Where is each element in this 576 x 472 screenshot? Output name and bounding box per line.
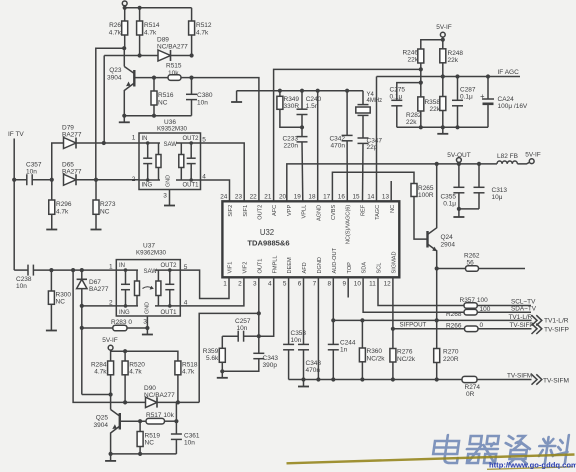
svg-text:TOP: TOP [347,262,353,274]
watermark text zi [503,436,532,464]
svg-text:C361: C361 [184,433,200,440]
svg-text:11: 11 [369,280,376,287]
svg-text:D79: D79 [62,125,74,132]
capacitor CA24 electrolytic [480,77,528,128]
svg-text:10n: 10n [197,100,208,107]
ground at R296 [46,226,57,230]
svg-text:GND: GND [166,175,172,187]
ground at Q23 emitter [119,116,130,123]
svg-text:R268: R268 [446,311,462,318]
capacitor C380 [186,78,213,116]
svg-text:DEEM: DEEM [287,257,293,274]
svg-text:SCL: SCL [377,263,383,274]
wire 5V-IF rail [111,349,178,361]
ground at Q25 emitter [105,454,116,461]
resistor R300 [48,270,71,328]
ground at R273 [91,226,102,230]
svg-text:OUT1: OUT1 [257,259,263,274]
svg-text:NC/2k: NC/2k [367,356,386,363]
svg-text:C355: C355 [440,194,456,201]
resistor R519 [137,421,160,454]
resistor R266 [446,322,534,332]
svg-text:TAGC: TAGC [375,205,381,220]
ground at bottom rail [298,380,309,387]
svg-text:4.7k: 4.7k [129,369,142,376]
svg-text:C257: C257 [235,318,251,325]
wire top supply rail [123,6,192,10]
transistor Q25 [94,395,120,454]
wire CVBS pin17 to R265 [332,172,414,201]
svg-text:C240: C240 [306,96,322,103]
svg-text:4.7k: 4.7k [56,209,69,216]
wire TAGC pin14 vertical [376,77,378,202]
crystal Y4 4MHz [356,91,382,138]
svg-text:R296: R296 [56,201,72,208]
svg-text:100μ /16V: 100μ /16V [498,103,528,110]
resistor R517 [146,412,178,424]
svg-text:C233: C233 [282,136,298,143]
svg-text:NC: NC [145,440,155,447]
wire AUD-OUT pin8 vertical [331,277,335,344]
power terminal 5V-IF bottom [102,337,118,361]
svg-text:1: 1 [109,263,113,270]
svg-text:1.5n: 1.5n [306,103,319,110]
svg-text:SIFPOUT: SIFPOUT [400,322,427,329]
svg-text:OUT2: OUT2 [182,136,199,142]
svg-text:Q24: Q24 [441,234,454,241]
svg-text:4: 4 [268,280,272,287]
wire DGND pin7 to rail [316,277,320,381]
diode D89 [104,37,194,62]
svg-text:D89: D89 [157,37,169,44]
resistor R515 [166,63,194,81]
resistor R268 [446,305,537,318]
svg-text:R516: R516 [158,92,174,99]
svg-text:2904: 2904 [441,242,456,249]
svg-text:23: 23 [235,193,243,200]
svg-text:6: 6 [298,280,302,287]
svg-text:24: 24 [220,193,228,200]
resistor R273 [93,200,116,226]
svg-text:NC/BA277: NC/BA277 [144,392,175,399]
svg-text:IN: IN [142,136,148,142]
svg-text:C238: C238 [16,276,32,283]
resistor R262 [437,253,525,272]
svg-text:R282: R282 [406,112,422,119]
svg-text:R270: R270 [443,349,459,356]
svg-text:AFC: AFC [272,205,278,216]
resistor R360 [359,320,385,381]
capacitor C244 [328,340,356,382]
svg-text:VIF1: VIF1 [228,262,234,274]
wire Q25 base line [120,419,146,423]
node TV-SIFP chevrons [532,324,570,334]
svg-text:1n: 1n [340,347,348,354]
power terminal 5V-IF right [517,152,540,164]
watermark text dian [432,435,461,463]
svg-text:R518: R518 [182,362,198,369]
wire R265 to Q24 base [414,197,428,240]
wire U37 pin2 line [82,305,117,307]
watermark text qi [465,436,500,463]
svg-text:R284: R284 [91,362,107,369]
svg-text:NC: NC [158,100,168,107]
resistor R357 [460,297,537,308]
resistor R516 [151,78,174,116]
svg-text:C357: C357 [26,162,42,169]
wire D79 node vertical [103,56,105,144]
svg-text:0R: 0R [466,391,475,398]
node TV1-L/R chevrons [532,315,569,325]
svg-text:R273: R273 [100,201,116,208]
svg-text:3: 3 [253,280,257,287]
svg-text:R265: R265 [418,185,434,192]
svg-text:TV-SIFM: TV-SIFM [543,377,569,384]
resistor R296 [49,180,72,226]
resistor R276 [390,329,416,382]
wire bottom rail TV-SIFM [289,379,462,381]
resistor R283 [82,319,148,331]
resistor R270 [434,320,459,381]
svg-text:Q23: Q23 [109,67,122,74]
wire audio line TV1-L/R [333,314,532,322]
U36 inner network [139,141,201,182]
wire Q23 emitter rail [122,114,191,118]
svg-text:VIF2: VIF2 [243,262,249,274]
svg-text:220R: 220R [443,356,459,363]
resistor R512 [189,8,212,56]
svg-text:NC: NC [390,205,396,213]
svg-text:NC: NC [56,299,66,306]
svg-text:VPLL: VPLL [302,205,308,219]
svg-text:D65: D65 [62,162,74,169]
capacitor C342 [329,91,352,202]
resistor R520 [122,351,145,404]
svg-text:R359: R359 [203,348,219,355]
svg-text:C287: C287 [460,87,476,94]
svg-text:REF: REF [360,204,366,216]
wire pin3 node to FMPLL pin4 [259,277,274,336]
svg-text:ING: ING [142,183,153,189]
svg-text:OUT1: OUT1 [182,183,199,189]
power terminal 5V-OUT [447,152,471,164]
transistor Q24 [428,164,456,269]
svg-text:C244: C244 [340,340,356,347]
capacitor C357 [14,162,54,186]
svg-text:SDA: SDA [362,262,368,274]
svg-text:AFD: AFD [302,262,308,273]
svg-text:R274: R274 [465,384,481,391]
svg-text:R512: R512 [196,22,212,29]
svg-text:D67: D67 [89,279,101,286]
svg-text:0: 0 [480,322,484,329]
svg-text:BA277: BA277 [89,286,109,293]
resistor R274 [462,372,532,397]
svg-text:20: 20 [279,193,287,200]
svg-text:100R: 100R [418,192,434,199]
wire U37 OUT1 to IC pin2 VIF2 [180,277,244,306]
svg-text:TV1-L/R: TV1-L/R [509,314,533,321]
svg-text:Q25: Q25 [96,415,109,422]
SAW filter U37 K9362M30 [109,243,188,326]
power terminal (top supply) [122,1,127,8]
resistor R246 [402,40,442,72]
svg-text:3904: 3904 [94,422,109,429]
capacitor C238 [14,265,116,290]
svg-text:C380: C380 [197,92,213,99]
svg-text:DGND: DGND [317,257,323,273]
svg-text:10n: 10n [184,440,195,447]
svg-text:10μ: 10μ [492,194,503,201]
wire U37 pin3 ground lead [145,316,149,330]
svg-text:R266: R266 [446,322,462,329]
svg-text:22: 22 [250,193,258,200]
wire input vertical A to D90 line [73,270,125,402]
ground at C355 [453,209,464,217]
svg-text:R519: R519 [145,433,161,440]
svg-text:http://www.go-gddq.com: http://www.go-gddq.com [489,461,576,470]
capacitor C275 [390,87,406,128]
node TV-SIFM chevrons [532,374,570,384]
svg-text:AUD-OUT: AUD-OUT [332,247,338,273]
svg-text:GND: GND [145,302,151,314]
svg-text:12: 12 [384,280,392,287]
svg-text:NC(S)/VAGC(6): NC(S)/VAGC(6) [346,205,352,245]
svg-text:SIF2: SIF2 [228,205,234,217]
wire D79 node down from bias block [95,180,97,200]
U37 inner network [116,268,180,307]
capacitor C287 [452,77,476,128]
capacitor C355 [440,164,464,209]
watermark text liao [537,435,570,463]
svg-text:IN: IN [119,263,125,269]
svg-text:0.1μ: 0.1μ [390,94,403,101]
svg-text:R262: R262 [464,253,480,260]
watermark strike line [287,455,575,470]
svg-text:R349: R349 [284,96,300,103]
svg-text:R26: R26 [109,22,121,29]
wire Q25 emitter rail [109,452,177,456]
power terminal 5V-IF top [436,24,452,42]
wire OUT2 line to IC pin 22 [192,78,259,202]
capacitor C353 [283,277,306,379]
svg-text:SDA~TV: SDA~TV [511,305,537,312]
op-amp U32 TDA9885&6 main IC [220,193,399,287]
svg-text:SAW: SAW [164,142,178,148]
resistor R514 [137,8,160,56]
svg-text:CVBS: CVBS [331,205,337,221]
resistor R358 [424,77,445,128]
svg-text:ING: ING [119,310,130,316]
svg-text:SIF1: SIF1 [243,205,249,217]
svg-text:TV-SIFM: TV-SIFM [507,372,532,379]
wire AGC filter bottom rail [397,125,488,129]
svg-text:5V-IF: 5V-IF [102,337,118,344]
capacitor C257 [222,318,258,342]
svg-text:TDA9885&6: TDA9885&6 [247,238,289,247]
svg-text:TV-SIFP: TV-SIFP [510,322,534,329]
node IF TV input [8,131,24,270]
node Q24 emitter [435,266,439,270]
wire SDA pin10 line [363,277,464,312]
svg-text:U32: U32 [260,228,274,237]
svg-text:0.1μ: 0.1μ [460,94,473,101]
svg-text:7: 7 [313,280,317,287]
svg-text:NC/BA277: NC/BA277 [157,44,188,51]
wire R246 node down to AFC filter [397,69,423,100]
wire U36 OUT1 to IC pin 24 [201,180,230,202]
svg-text:21: 21 [264,193,272,200]
wire OUT1 feedback vertical [199,313,259,402]
svg-text:TV1-L/R: TV1-L/R [544,318,569,325]
wire Q23 collector node to left vertical [96,46,126,180]
svg-text:22p: 22p [367,144,378,151]
svg-text:390p: 390p [263,362,278,369]
wire C257 left to R359 [221,336,223,348]
svg-text:22k: 22k [430,106,441,113]
svg-text:C275: C275 [390,87,406,94]
svg-text:22k: 22k [408,57,419,64]
svg-text:3: 3 [163,193,167,200]
svg-text:FMPLL: FMPLL [272,255,278,273]
svg-text:2: 2 [238,280,242,287]
svg-text:OUT1: OUT1 [160,310,177,316]
svg-text:NC: NC [100,209,110,216]
svg-text:4MHz: 4MHz [367,98,383,104]
svg-text:19: 19 [294,193,302,200]
svg-text:16: 16 [338,193,346,200]
svg-text:IF TV: IF TV [8,131,24,138]
svg-text:R514: R514 [144,22,160,29]
ground at U36 pin 3 [164,190,175,206]
svg-text:4.7k: 4.7k [196,30,209,37]
wire Q24 emitter to audio line [436,269,438,321]
ground at R283 [142,328,153,335]
svg-text:AGND: AGND [316,205,322,221]
svg-text:14: 14 [367,193,375,200]
capacitor C313 [474,164,508,209]
svg-text:15: 15 [352,193,360,200]
svg-text:470n: 470n [331,143,346,150]
wire 5V-OUT rail from VPP pin20 [287,162,497,202]
svg-text:R360: R360 [367,348,383,355]
transistor Q23 [107,48,134,116]
diode D65 [62,162,139,186]
svg-text:10: 10 [354,280,362,287]
svg-text:5V-IF: 5V-IF [525,152,541,159]
svg-text:3: 3 [143,319,147,326]
svg-text:R276: R276 [397,349,413,356]
svg-text:22k: 22k [448,57,459,64]
ground at bus left end [231,91,242,102]
svg-text:3904: 3904 [107,75,122,82]
resistor R284 [91,361,114,397]
capacitor C348 [298,277,321,381]
ground at R300 [46,328,57,331]
resistor R282 [406,97,424,127]
svg-text:4.7k: 4.7k [144,30,157,37]
svg-text:R515: R515 [166,63,182,70]
svg-text:8: 8 [328,280,332,287]
svg-text:R248: R248 [448,50,464,57]
inductor L82 FB [497,153,518,164]
wire analog ground bus [237,89,363,93]
resistor R26 [109,8,128,48]
ground at R359 [217,371,228,378]
wire TOP pin9 stub [347,277,349,297]
wire OUT1 pin3 vertical [257,277,261,338]
svg-text:2: 2 [132,176,136,183]
watermark url [489,461,576,470]
SAW filter U36 K9352M30 [132,119,207,200]
svg-text:220n: 220n [284,143,299,150]
svg-text:OUT2: OUT2 [258,205,264,220]
svg-text:R246: R246 [402,50,418,57]
svg-text:R358: R358 [424,99,440,106]
capacitor C343 [222,336,278,371]
svg-text:L82 FB: L82 FB [497,153,518,160]
svg-text:R300: R300 [56,292,72,299]
svg-text:CA24: CA24 [498,96,515,103]
ground at AGC filter [437,127,448,134]
svg-text:K9352M30: K9352M30 [157,126,187,133]
svg-text:VPP: VPP [287,205,293,216]
capacitor C240 [297,91,322,130]
svg-text:IF AGC: IF AGC [498,69,520,76]
svg-text:10k: 10k [168,70,179,77]
wire Q23 base node [134,76,168,80]
resistor R248 [440,40,464,77]
svg-text:1: 1 [132,135,136,142]
wire SIGMAD pin12 line SIFPOUT [391,277,465,331]
svg-text:13: 13 [382,193,390,200]
svg-text:4.7k: 4.7k [182,369,195,376]
resistor R359 [203,348,226,373]
node IF AGC line [377,69,521,79]
svg-text:C313: C313 [492,187,508,194]
svg-text:TV-SIFP: TV-SIFP [544,327,570,334]
svg-text:4.7k: 4.7k [109,30,122,37]
wire Q25 collector line [82,394,111,396]
svg-text:0.1μ: 0.1μ [443,201,456,208]
svg-text:K9362M30: K9362M30 [136,249,166,256]
wire AGND pin18 to bus [317,91,319,202]
svg-text:1: 1 [223,280,227,287]
wire AFC pin21 to R246 node [274,69,421,201]
wire R517 node to D90 line [175,402,177,421]
resistor R265 [411,184,434,200]
wire NC pin13 stub [390,181,392,202]
capacitor C361 [171,421,200,454]
svg-text:22k: 22k [406,119,417,126]
diode D90 [125,385,199,408]
svg-text:18: 18 [308,193,316,200]
svg-text:9: 9 [342,280,346,287]
svg-text:4.7k: 4.7k [94,369,107,376]
resistor R349 [277,91,302,128]
svg-text:SIGMAD: SIGMAD [392,251,398,273]
svg-text:OUT2: OUT2 [160,263,177,269]
wire U36 OUT2 to IC pin 23 [201,143,245,202]
svg-text:5.6k: 5.6k [206,355,219,362]
resistor R518 [175,361,198,405]
svg-text:10n: 10n [16,283,27,290]
svg-text:C343: C343 [263,355,279,362]
svg-text:5: 5 [283,280,287,287]
wire SCL pin11 line [378,277,464,305]
wire C355 C313 bottom [457,207,479,211]
svg-text:R520: R520 [129,362,145,369]
